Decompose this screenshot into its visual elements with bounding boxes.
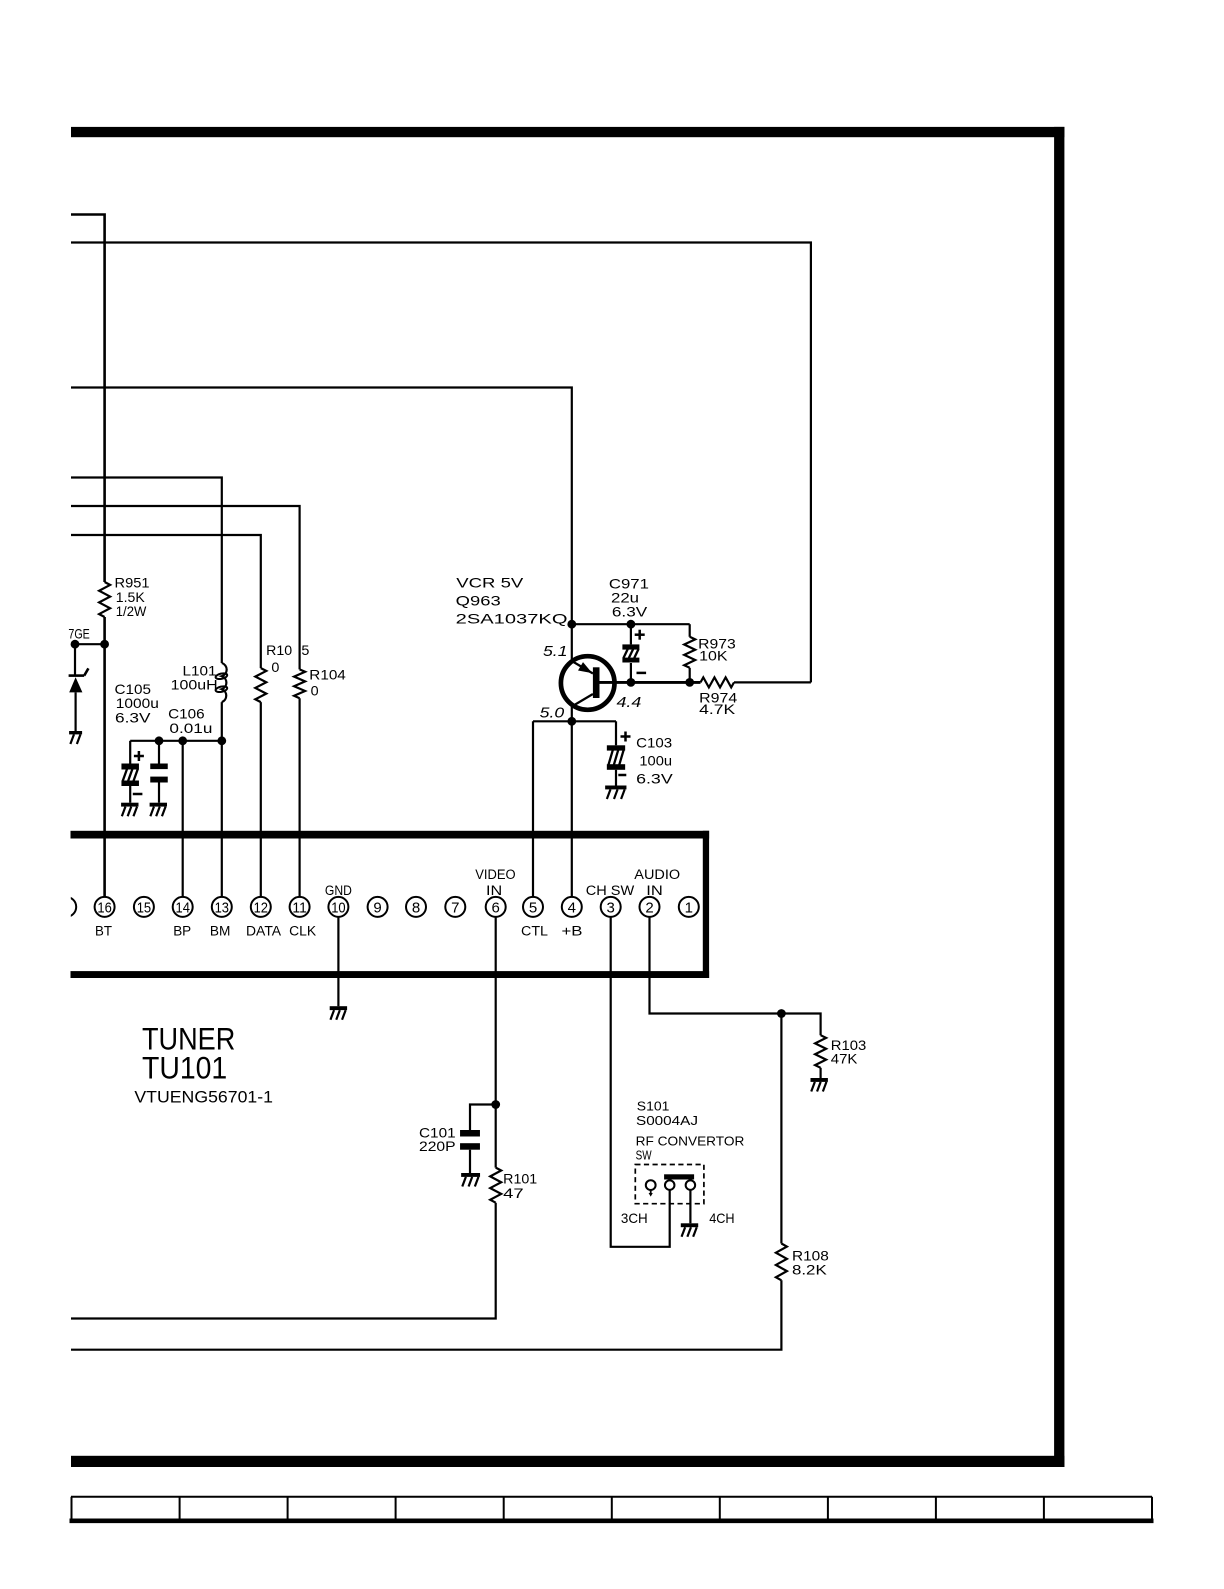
pin 12 (251, 897, 271, 917)
switch S101 (635, 1165, 704, 1204)
svg-text:12: 12 (254, 899, 268, 916)
resistor R104 (294, 669, 305, 698)
transistor Q963 (561, 656, 615, 710)
node C106 top (155, 736, 164, 745)
pin 17 partial (56, 897, 76, 917)
resistor R101 (490, 1168, 501, 1203)
wire zener node (75, 643, 105, 645)
svg-text:S0004AJ: S0004AJ (636, 1113, 698, 1128)
svg-text:8: 8 (412, 899, 420, 916)
svg-text:14: 14 (176, 899, 190, 916)
resistor R105 (255, 668, 266, 702)
capacitor C105 (129, 741, 131, 764)
svg-text:6.3V: 6.3V (612, 604, 648, 620)
ground for C103 (605, 786, 626, 790)
wire long net to R974 (71, 243, 811, 683)
node R108 top (777, 1009, 786, 1018)
wire R108 to left edge (71, 1280, 781, 1349)
svg-text:R10: R10 (266, 642, 292, 658)
pin 2 (640, 897, 660, 917)
node zener junction (71, 640, 80, 649)
node C971 bottom on base line (627, 678, 636, 687)
pin 15 (134, 897, 154, 917)
inductor L101 (222, 663, 227, 702)
svg-text:13: 13 (215, 899, 229, 916)
svg-text:DATA: DATA (246, 923, 281, 938)
svg-text:1/2W: 1/2W (116, 603, 147, 619)
wire Q963 base line (600, 681, 701, 684)
svg-text:6.3V: 6.3V (636, 771, 673, 787)
wire collector node (533, 720, 616, 722)
capacitor C971 (630, 624, 632, 644)
ground for R103 (811, 1078, 828, 1082)
resistor R974 (701, 677, 735, 687)
svg-text:4.4: 4.4 (617, 694, 642, 711)
svg-text:RF CONVERTOR: RF CONVERTOR (636, 1133, 745, 1148)
wire R105 to pin 12 (260, 702, 262, 897)
node Q963 emitter (567, 620, 576, 629)
svg-text:1: 1 (685, 899, 693, 916)
wire BP node to pin 14 (182, 741, 184, 897)
svg-text:CTL: CTL (521, 923, 549, 938)
svg-text:7: 7 (451, 899, 459, 916)
svg-text:VCR 5V: VCR 5V (456, 575, 524, 591)
svg-text:5.1: 5.1 (543, 643, 568, 660)
svg-text:100u: 100u (639, 753, 672, 769)
wire node to R108 (780, 1014, 782, 1244)
svg-text:6.3V: 6.3V (115, 710, 151, 726)
svg-text:R104: R104 (309, 667, 346, 683)
wire collector node to pin 5 CTL (532, 721, 534, 897)
svg-text:47K: 47K (831, 1050, 858, 1066)
svg-text:5: 5 (301, 642, 309, 658)
resistor R973 (689, 624, 691, 637)
svg-text:VTUENG56701-1: VTUENG56701-1 (134, 1089, 273, 1107)
node L101 bottom (217, 736, 226, 745)
svg-text:IN: IN (646, 883, 663, 898)
pin 9 (368, 897, 388, 917)
tuner TU101 block (71, 831, 710, 839)
pin 13 (212, 897, 232, 917)
wire L101 to pin 13 BM (221, 702, 223, 897)
svg-text:CLK: CLK (289, 923, 316, 938)
svg-text:11: 11 (292, 899, 306, 916)
wire pin 2 AUDIO IN to R103 (650, 917, 821, 1035)
svg-text:S101: S101 (637, 1099, 670, 1114)
pin 10 (328, 897, 348, 917)
wire video node to C101 (470, 1105, 496, 1131)
pin 16 (95, 897, 115, 917)
svg-text:100uH: 100uH (171, 676, 218, 692)
svg-text:CH SW: CH SW (586, 883, 635, 898)
svg-text:220P: 220P (419, 1138, 456, 1154)
svg-text:IN: IN (486, 883, 502, 898)
svg-text:0: 0 (271, 659, 279, 675)
pin 7 (445, 897, 465, 917)
svg-text:8.2K: 8.2K (792, 1262, 827, 1278)
svg-text:Q963: Q963 (456, 593, 501, 609)
wire net BT top stub (71, 215, 105, 583)
svg-text:5: 5 (529, 899, 537, 916)
svg-text:9: 9 (373, 899, 381, 916)
svg-text:7GE: 7GE (68, 626, 89, 642)
svg-text:SW: SW (636, 1148, 653, 1163)
wire net BT to pin 16 (103, 617, 106, 897)
svg-text:2: 2 (645, 899, 653, 916)
svg-text:TU101: TU101 (142, 1050, 227, 1086)
svg-text:VIDEO: VIDEO (475, 867, 515, 882)
resistor R951 (99, 582, 110, 617)
wire net to L101 (71, 478, 222, 664)
svg-text:47: 47 (503, 1185, 524, 1201)
svg-text:10K: 10K (699, 648, 728, 664)
svg-text:4CH: 4CH (709, 1211, 734, 1226)
ground for pin 10 GND (330, 1006, 347, 1010)
ground for zener (69, 731, 82, 734)
capacitor C101 (460, 1130, 480, 1137)
wire VCR 5V net to Q963 emitter (71, 388, 572, 625)
pin 11 (290, 897, 310, 917)
pin 5 (523, 897, 543, 917)
ground for C105 (121, 803, 138, 807)
resistor R108 (776, 1244, 787, 1281)
svg-text:0: 0 (311, 682, 319, 698)
svg-text:10: 10 (331, 899, 345, 916)
svg-text:2SA1037KQ: 2SA1037KQ (456, 611, 568, 627)
capacitor C103 (615, 721, 617, 745)
node Q963 collector (567, 717, 576, 726)
ground for C106 (150, 803, 167, 807)
wire BP node horizontal (130, 740, 222, 742)
title block table (71, 1497, 1152, 1521)
svg-text:16: 16 (97, 899, 111, 916)
wire net to R105 / pin 12 DATA (71, 535, 261, 668)
pin 8 (406, 897, 426, 917)
node video junction (491, 1100, 500, 1109)
svg-text:6: 6 (492, 899, 500, 916)
wire net to R104 / pin 11 CLK (71, 506, 300, 669)
svg-text:0.01u: 0.01u (169, 720, 212, 736)
wire S101 right pole to ground (689, 1190, 691, 1223)
wire pin 6 VIDEO IN down (495, 917, 497, 1168)
svg-text:4.7K: 4.7K (699, 701, 736, 717)
node R973 bottom on base line (685, 678, 694, 687)
svg-text:BT: BT (95, 923, 112, 938)
svg-text:4: 4 (568, 899, 576, 916)
svg-text:C103: C103 (636, 735, 672, 751)
pin 3 (601, 897, 621, 917)
wire R101 to left edge (71, 1203, 496, 1319)
node C971 top (627, 620, 636, 629)
wire collector to pin 4 +B (571, 721, 573, 897)
svg-text:3: 3 (607, 899, 615, 916)
wire pin 10 to ground (337, 917, 339, 1006)
wire R104 to pin 11 (299, 698, 301, 897)
svg-text:AUDIO: AUDIO (634, 867, 680, 882)
capacitor C106 (158, 741, 160, 764)
svg-text:BP: BP (173, 923, 191, 938)
pin 14 (173, 897, 193, 917)
wire emitter node to C971 (572, 623, 690, 625)
svg-text:GND: GND (325, 883, 352, 898)
pin 6 (486, 897, 506, 917)
svg-text:3CH: 3CH (621, 1211, 648, 1226)
svg-text:15: 15 (137, 899, 151, 916)
pin 1 (679, 897, 699, 917)
node BP wire (178, 736, 187, 745)
ground for S101 4CH (681, 1223, 698, 1227)
svg-text:5.0: 5.0 (540, 704, 565, 721)
svg-text:+B: +B (562, 923, 583, 938)
resistor R103 (815, 1035, 826, 1068)
zener diode D 7GE (74, 644, 76, 675)
svg-text:BM: BM (210, 923, 231, 938)
wire pin 3 CH SW to S101 (611, 917, 670, 1247)
ground for C101 (461, 1173, 480, 1177)
pin 4 (562, 897, 582, 917)
